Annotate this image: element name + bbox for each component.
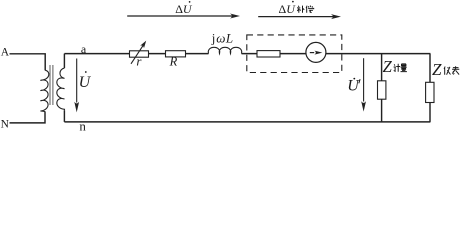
svg-text:Z: Z <box>383 57 393 76</box>
svg-text:Z: Z <box>432 60 442 79</box>
svg-text:N: N <box>1 119 10 131</box>
svg-text:U: U <box>347 78 360 95</box>
svg-text:R: R <box>169 55 178 69</box>
svg-text:jωL: jωL <box>211 31 233 46</box>
svg-text:a: a <box>81 42 87 56</box>
svg-text:ΔU: ΔU <box>175 2 193 16</box>
svg-text:U: U <box>79 74 92 91</box>
svg-text:n: n <box>79 119 86 132</box>
svg-text:ΔU: ΔU <box>279 2 297 16</box>
svg-text:A: A <box>1 47 10 59</box>
